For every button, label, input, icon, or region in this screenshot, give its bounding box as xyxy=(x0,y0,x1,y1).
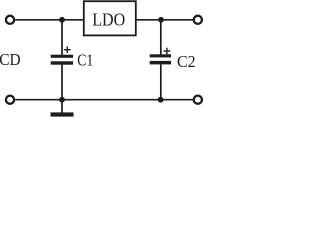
wire C1 bottom lead to ground xyxy=(61,65,63,113)
svg-text:C1: C1 xyxy=(77,51,93,70)
svg-text:CD: CD xyxy=(0,50,21,69)
svg-text:C2: C2 xyxy=(177,52,196,71)
capacitor C1 plates xyxy=(51,55,73,65)
terminal TP1 top-left xyxy=(6,16,14,24)
wire ground rail (TP3 to TP4) xyxy=(15,99,193,101)
node C2 top junction xyxy=(158,17,164,23)
regulator U1 box xyxy=(84,1,136,35)
node C1 bottom junction xyxy=(59,97,65,103)
capacitor C1 plus sign xyxy=(64,46,71,53)
wire C2 top lead xyxy=(160,20,162,55)
wire C1 top lead xyxy=(61,20,63,55)
capacitor C2 plus sign xyxy=(164,48,171,55)
terminal TP3 bottom-left xyxy=(6,96,14,104)
capacitor C2 plates xyxy=(150,54,171,64)
terminal TP4 bottom-right xyxy=(194,96,202,104)
ground xyxy=(51,112,74,116)
terminal TP2 top-right xyxy=(194,16,202,24)
svg-text:LDO: LDO xyxy=(92,9,125,29)
wire output rail (LDO to TP2) xyxy=(136,19,193,21)
node C2 bottom junction xyxy=(158,97,164,103)
wire C2 bottom lead xyxy=(160,64,162,99)
node C1 top junction xyxy=(59,17,65,23)
wire input rail (TP1 to LDO) xyxy=(15,19,84,21)
